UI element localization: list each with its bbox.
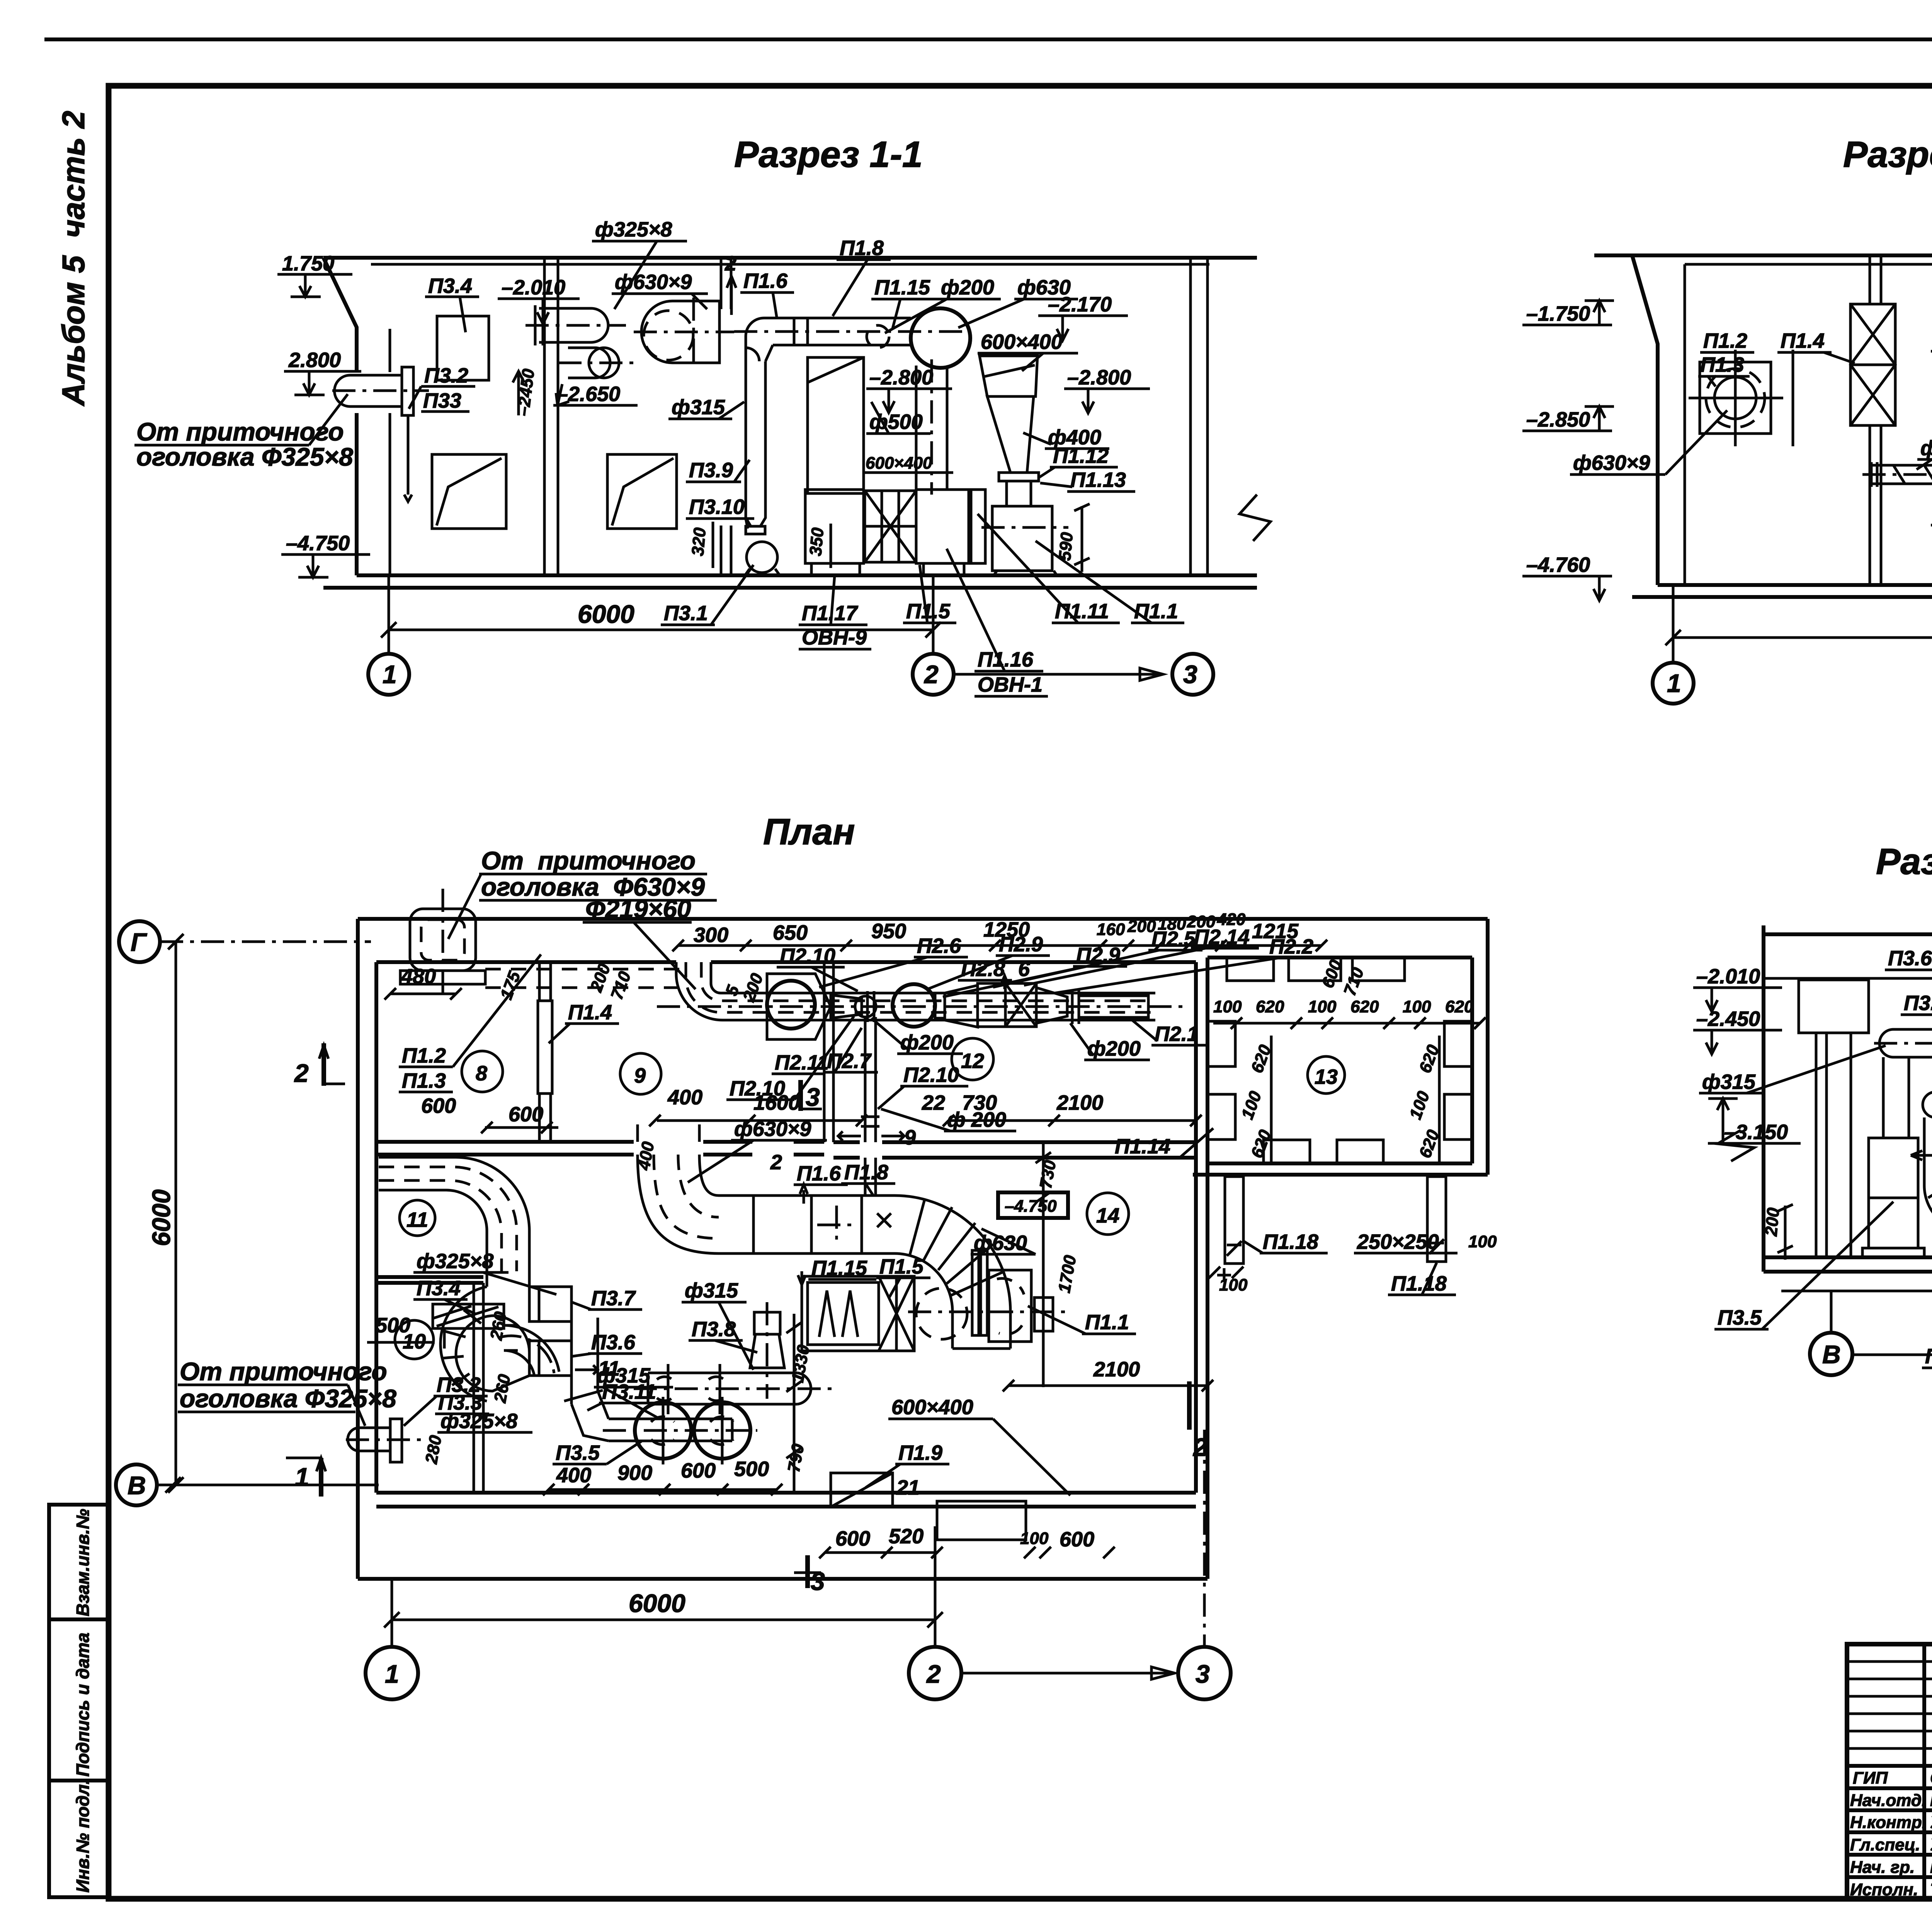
svg-text:–2.850: –2.850: [1526, 408, 1590, 431]
П3.11 elbow: [504, 1325, 559, 1376]
left wall: [356, 919, 360, 1579]
section mark 2 top left: [321, 1043, 326, 1086]
svg-text:П1.18: П1.18: [1391, 1272, 1447, 1295]
svg-text:План: План: [763, 811, 855, 852]
fan circle ф630: [911, 308, 970, 368]
bottom wall: [376, 1491, 1196, 1495]
duct ф325x8 upper: [539, 308, 608, 342]
П1.18 stub left: [1225, 1177, 1243, 1264]
svg-text:6: 6: [1018, 957, 1030, 981]
motor П1.1: [989, 1270, 1031, 1342]
svg-text:21: 21: [896, 1476, 920, 1499]
svg-text:П2.7: П2.7: [827, 1049, 872, 1073]
signature part columns: [1922, 1644, 1926, 1899]
svg-text:П2.10: П2.10: [903, 1063, 959, 1087]
legs: [810, 563, 813, 575]
svg-text:Самитов: Самитов: [1930, 1769, 1932, 1787]
vertical duct ф315: [745, 348, 747, 502]
ceiling slab: [323, 256, 1257, 260]
svg-text:От приточного: От приточного: [481, 846, 696, 875]
svg-text:Нач.отд.: Нач.отд.: [1850, 1791, 1926, 1810]
break mark: [1240, 495, 1270, 541]
floor slab: [1764, 1255, 1932, 1259]
svg-text:–2.010: –2.010: [1696, 965, 1760, 988]
svg-text:П1.1: П1.1: [1085, 1311, 1129, 1334]
P3 upper oval duct: [648, 1372, 798, 1374]
partition below grille: [1869, 425, 1871, 585]
ceiling slab: [1764, 932, 1932, 936]
svg-text:–2.170: –2.170: [1048, 293, 1112, 316]
svg-text:–1.750: –1.750: [1526, 302, 1590, 325]
svg-text:Исполн.: Исполн.: [1850, 1880, 1918, 1899]
svg-text:–3.150: –3.150: [1724, 1121, 1788, 1144]
room number circles: [462, 1051, 503, 1092]
svg-text:П1.2: П1.2: [402, 1044, 446, 1067]
svg-text:ф219×6: ф219×6: [1920, 437, 1932, 460]
svg-text:600: 600: [1060, 1528, 1094, 1551]
upper thin rows: [1847, 1660, 1932, 1663]
main oval duct ф315: [1893, 1028, 1932, 1031]
svg-text:П1.9: П1.9: [898, 1441, 942, 1464]
svg-text:П1.15: П1.15: [811, 1257, 867, 1280]
left wall: [323, 258, 357, 372]
svg-text:–2.010: –2.010: [502, 276, 565, 299]
svg-text:2100: 2100: [1056, 1091, 1103, 1114]
svg-text:–4.760: –4.760: [1526, 553, 1590, 577]
boxes П3.5: [1869, 1138, 1918, 1198]
floor slab: [1658, 583, 1932, 587]
svg-text:П1.3: П1.3: [402, 1069, 446, 1092]
grille П1.4: [1850, 304, 1895, 425]
svg-text:ОВН-1: ОВН-1: [978, 673, 1043, 696]
vert dim 6000: [175, 942, 177, 1485]
svg-text:600: 600: [835, 1527, 870, 1550]
axis В: [1810, 1333, 1852, 1375]
svg-text:Козлов: Козлов: [1930, 1791, 1932, 1810]
svg-text:ф315: ф315: [685, 1279, 738, 1302]
plan labels: [168, 846, 1497, 1558]
flange П1.12: [999, 473, 1039, 481]
svg-text:П2.2: П2.2: [1269, 935, 1313, 958]
flanges: [972, 1250, 979, 1335]
svg-text:2: 2: [923, 660, 939, 689]
dim line x2055 for 1330/790: [793, 1314, 796, 1493]
svg-text:П2.5: П2.5: [1151, 927, 1196, 951]
dim row above wall: [678, 944, 1321, 947]
svg-text:2: 2: [770, 1151, 782, 1174]
wall room13 block: [1486, 919, 1490, 1175]
svg-text:ф325×8: ф325×8: [440, 1410, 517, 1433]
svg-text:Инв.№ подл.: Инв.№ подл.: [73, 1779, 93, 1893]
duct ф325x8 lower: [568, 348, 610, 378]
arrows 4: [1911, 1151, 1932, 1160]
section mark 3 top: [798, 1080, 803, 1111]
fan П2.6: [767, 974, 831, 1039]
svg-text:3: 3: [1196, 1660, 1210, 1688]
svg-text:П1.5: П1.5: [879, 1255, 924, 1278]
svg-text:П3.10: П3.10: [689, 495, 745, 519]
svg-text:П1.4: П1.4: [568, 1001, 612, 1024]
svg-text:П1.5: П1.5: [906, 600, 951, 623]
flange ticks on horizontal duct: [793, 318, 796, 345]
svg-text:400: 400: [667, 1086, 702, 1109]
svg-text:В: В: [128, 1471, 146, 1500]
svg-text:900: 900: [617, 1461, 652, 1485]
svg-text:ф630×9: ф630×9: [1573, 451, 1650, 474]
svg-text:–2.800: –2.800: [869, 366, 933, 389]
svg-text:–2.450: –2.450: [1696, 1007, 1760, 1031]
svg-text:950: 950: [871, 920, 906, 943]
svg-text:730: 730: [962, 1091, 997, 1114]
flange piece: [971, 490, 985, 563]
П1 big elbow from wall: [636, 1124, 639, 1142]
svg-text:П3.8: П3.8: [692, 1318, 736, 1341]
svg-text:480: 480: [401, 965, 436, 988]
svg-text:250×250: 250×250: [1357, 1230, 1439, 1253]
svg-text:350: 350: [806, 527, 827, 557]
svg-text:600×400: 600×400: [891, 1396, 973, 1419]
svg-text:П1.8: П1.8: [840, 236, 884, 260]
svg-text:Ф219×60: Ф219×60: [585, 895, 691, 923]
svg-text:3: 3: [806, 1083, 820, 1111]
duct from П3.4 to elbow: [504, 1324, 518, 1327]
svg-text:6000: 6000: [629, 1589, 685, 1617]
svg-text:ф200: ф200: [900, 1031, 954, 1054]
svg-text:600×400: 600×400: [981, 330, 1063, 354]
svg-text:12: 12: [961, 1049, 984, 1073]
svg-text:П3.6: П3.6: [1888, 947, 1932, 970]
wall rooms 12/14: [833, 1140, 860, 1144]
wall between 12 block and 13: [1194, 962, 1198, 1493]
svg-text:ф200: ф200: [1087, 1037, 1141, 1060]
axis circle 3: [1178, 1647, 1231, 1699]
svg-text:8: 8: [476, 1062, 487, 1085]
cone П2.2 and stub П2.1: [1036, 988, 1067, 1023]
П1 horizontal duct: [719, 1194, 895, 1197]
svg-text:2100: 2100: [1093, 1358, 1140, 1381]
svg-text:ф630×9: ф630×9: [615, 270, 692, 294]
svg-text:600×400: 600×400: [866, 454, 932, 473]
svg-text:П3.5: П3.5: [1718, 1306, 1762, 1329]
filter П1.5 X-section: [865, 491, 916, 562]
chimney on top wall: [410, 909, 476, 971]
svg-text:П1.16: П1.16: [978, 648, 1034, 671]
svg-text:П3.6: П3.6: [591, 1331, 636, 1354]
svg-text:100: 100: [1213, 997, 1242, 1016]
door square 2: [607, 454, 677, 529]
svg-text:П2.9: П2.9: [999, 933, 1043, 956]
section mark 3 bottom: [805, 1555, 810, 1588]
П1 segmented elbow right: [895, 1196, 1010, 1349]
svg-text:Взам.инв.№: Взам.инв.№: [73, 1509, 93, 1616]
wall below rooms 8/9: [376, 1140, 634, 1144]
dimension 6000: [1672, 585, 1675, 663]
svg-text:–2.800: –2.800: [1067, 366, 1131, 389]
svg-text:500: 500: [376, 1314, 410, 1337]
svg-text:ф200: ф200: [941, 276, 994, 299]
svg-text:П1.3: П1.3: [1700, 353, 1744, 376]
big duct ф630x9: [641, 301, 719, 363]
svg-text:3: 3: [811, 1567, 825, 1595]
top wall outer: [358, 917, 1488, 921]
P3 lower duct with heaters: [609, 1418, 732, 1420]
wall rooms 8/9: [538, 962, 541, 1001]
ф200 duct down: [864, 1017, 867, 1142]
stub оголовок Ф325x8 bottom left: [348, 1428, 390, 1451]
feet: [989, 571, 1063, 575]
cone to П2.5: [945, 985, 978, 1027]
intake П1.2 П1.3: [1700, 362, 1771, 434]
signature rows: [1847, 1764, 1932, 1768]
svg-text:П1.12: П1.12: [1053, 444, 1109, 468]
svg-text:Васильева: Васильева: [1930, 1858, 1932, 1877]
svg-text:–4.750: –4.750: [1005, 1197, 1057, 1216]
svg-text:2: 2: [926, 1660, 941, 1688]
svg-text:П3.11: П3.11: [1904, 992, 1932, 1015]
svg-text:В: В: [1822, 1340, 1841, 1369]
svg-text:П3.4: П3.4: [417, 1277, 461, 1300]
svg-text:500: 500: [734, 1458, 769, 1481]
svg-text:П1.15: П1.15: [874, 276, 930, 299]
svg-text:2.800: 2.800: [288, 349, 341, 372]
dim 6000 bottom: [391, 1579, 393, 1646]
svg-text:1600: 1600: [753, 1091, 800, 1114]
svg-text:П3.5: П3.5: [556, 1441, 600, 1464]
fan П1.1 top diffuser: [980, 356, 1037, 396]
svg-text:620: 620: [1445, 997, 1474, 1016]
svg-text:1: 1: [295, 1463, 309, 1491]
box -4.750: [998, 1192, 1068, 1218]
axis circle 1: [366, 1647, 418, 1699]
svg-text:2: 2: [294, 1059, 309, 1087]
П2 duct elbow from top wall: [676, 962, 1155, 1020]
axis circle 2: [913, 654, 954, 695]
top wall inner: [376, 960, 676, 964]
top trim line: [44, 37, 1932, 41]
svg-text:1.750: 1.750: [282, 252, 334, 275]
svg-text:П3.9: П3.9: [689, 459, 733, 482]
svg-text:П3.8: П3.8: [1925, 1345, 1932, 1368]
boxes П2.5 П2.14: [978, 983, 1005, 1027]
svg-text:22: 22: [922, 1091, 945, 1114]
svg-text:11: 11: [406, 1208, 428, 1231]
axis circle 3: [1172, 654, 1213, 695]
svg-text:П1.18: П1.18: [1263, 1230, 1318, 1253]
svg-text:Н.контр.: Н.контр.: [1850, 1813, 1927, 1832]
vert dim 730/1700: [1042, 1144, 1045, 1387]
svg-text:Альбом 5 часть 2: Альбом 5 часть 2: [56, 111, 91, 406]
svg-text:Подпись и дата: Подпись и дата: [73, 1633, 93, 1777]
wall rooms 9/12: [823, 962, 826, 1142]
section mark 2 bottom right: [1187, 1381, 1192, 1430]
svg-text:П3.1: П3.1: [664, 602, 708, 625]
circle ф200 dashed: [867, 325, 889, 348]
svg-text:оголовка Ф325×8: оголовка Ф325×8: [180, 1384, 396, 1413]
pipe ф219x6 lower run: [1871, 464, 1932, 467]
П3.8 cone and box: [754, 1312, 780, 1334]
svg-text:ф315: ф315: [672, 396, 725, 419]
svg-text:520: 520: [889, 1525, 923, 1548]
svg-text:ф325×8: ф325×8: [595, 218, 672, 241]
svg-text:П3.7: П3.7: [591, 1287, 636, 1310]
svg-text:П1.6: П1.6: [743, 269, 788, 293]
svg-text:Гл.спец.: Гл.спец.: [1850, 1835, 1920, 1854]
svg-text:П2.6: П2.6: [917, 934, 961, 957]
svg-text:620: 620: [1256, 997, 1284, 1016]
partition wall 2: [720, 259, 723, 309]
right wall: [1189, 258, 1192, 575]
svg-text:Усенков: Усенков: [1930, 1813, 1932, 1832]
ф200 circle on run: [855, 996, 876, 1017]
U bend П3 with boxes: [440, 1287, 529, 1401]
svg-text:П3.2: П3.2: [424, 364, 468, 387]
svg-text:1: 1: [383, 660, 397, 689]
svg-text:2: 2: [1192, 1433, 1207, 1461]
svg-text:П1.4: П1.4: [1781, 329, 1825, 352]
9 arrows: [838, 1131, 904, 1141]
fan П1.1 dashed wheel: [916, 1288, 967, 1339]
fan П3.1 small: [746, 502, 765, 526]
axis circle 2: [909, 1647, 961, 1699]
dim 6000 vert ticks: [168, 934, 184, 1493]
unit П1.16 ОВН-1: [916, 490, 969, 563]
room 13 slots right: [1444, 1021, 1472, 1066]
svg-text:П1.1: П1.1: [1134, 600, 1178, 623]
svg-text:П2.14: П2.14: [1194, 925, 1250, 949]
svg-text:2: 2: [724, 252, 736, 275]
svg-text:оголовка Ф325×8: оголовка Ф325×8: [136, 442, 353, 471]
upper S-duct П3 near room 11: [379, 1157, 529, 1271]
svg-text:Усенков: Усенков: [1930, 1835, 1932, 1854]
svg-text:ф630×9: ф630×9: [734, 1117, 811, 1141]
room 13 slots top: [1227, 957, 1274, 981]
svg-text:100: 100: [1403, 997, 1431, 1016]
svg-text:1: 1: [385, 1660, 399, 1688]
door square 1: [432, 454, 506, 529]
svg-text:От приточного: От приточного: [180, 1357, 387, 1386]
svg-text:Разрез 2-2: Разрез 2-2: [1843, 134, 1932, 175]
svg-text:П2.1: П2.1: [1155, 1022, 1199, 1046]
svg-text:600: 600: [509, 1103, 543, 1126]
fan П2.9: [893, 984, 935, 1027]
svg-text:620: 620: [1350, 997, 1379, 1016]
elbow to horizontal duct П1.6/П1.8: [746, 318, 911, 348]
svg-text:9: 9: [634, 1064, 646, 1087]
П3.4 heater in plan: [433, 1304, 504, 1328]
section mark 1 bottom left: [319, 1458, 323, 1497]
svg-text:П1.8: П1.8: [844, 1161, 888, 1184]
axis В: [116, 1464, 157, 1505]
wall rooms 11/10: [376, 1275, 483, 1279]
svg-text:100: 100: [1308, 997, 1337, 1016]
svg-text:Тарасова: Тарасова: [1930, 1880, 1932, 1899]
svg-text:–4.750: –4.750: [286, 532, 350, 555]
svg-text:П2.8: П2.8: [961, 957, 1005, 981]
dashed duct Ф219x60 along top wall: [485, 968, 684, 971]
room 13 slots bottom: [1264, 1140, 1310, 1163]
dimension 6000: [388, 575, 390, 655]
svg-text:100: 100: [1468, 1232, 1497, 1251]
svg-text:300: 300: [694, 923, 728, 947]
svg-text:ф315: ф315: [1702, 1070, 1756, 1094]
svg-text:ф630: ф630: [974, 1231, 1027, 1255]
partition wall 1: [543, 259, 546, 575]
left wall: [1594, 255, 1658, 585]
svg-text:400: 400: [556, 1464, 591, 1487]
svg-text:600: 600: [421, 1094, 456, 1117]
break marks: [1718, 1130, 1754, 1161]
vertical pipe from oval to П3.5: [1882, 1057, 1885, 1138]
svg-text:14: 14: [1096, 1204, 1119, 1227]
svg-text:П3.4: П3.4: [428, 274, 472, 298]
П2.8 cone: [831, 995, 862, 1018]
П1.5 filter box: [802, 1276, 914, 1351]
svg-text:ф315: ф315: [597, 1364, 651, 1387]
svg-text:Разрез 1-1: Разрез 1-1: [734, 134, 923, 175]
svg-text:ГИП: ГИП: [1853, 1769, 1888, 1787]
svg-text:13: 13: [1315, 1065, 1338, 1088]
svg-text:650: 650: [773, 921, 808, 944]
svg-text:6000: 6000: [147, 1189, 175, 1246]
floor slab: [357, 573, 1257, 577]
svg-text:ф325×8: ф325×8: [417, 1250, 493, 1273]
svg-text:П33: П33: [423, 389, 461, 412]
axis circle 1: [1653, 663, 1694, 704]
svg-text:100: 100: [1020, 1529, 1049, 1548]
ceiling slab: [1594, 253, 1932, 257]
room 13 slots left: [1207, 1021, 1235, 1066]
elbow П3.8: [1924, 1185, 1932, 1232]
svg-text:600: 600: [681, 1459, 716, 1482]
svg-text:3: 3: [1183, 660, 1197, 689]
label -2450: [517, 371, 520, 415]
vertical duct 600x400 with П1.15 transition: [808, 357, 864, 493]
wall opening below П1.9: [937, 1501, 1026, 1540]
svg-text:1: 1: [1667, 669, 1681, 697]
axis Г: [119, 921, 160, 962]
svg-text:П1.14: П1.14: [1115, 1135, 1170, 1158]
inlet stub П3.2 through wall: [335, 375, 402, 406]
svg-text:160: 160: [1097, 920, 1125, 939]
svg-text:П1.11: П1.11: [1055, 600, 1109, 623]
margin column box: [49, 1505, 109, 1897]
box П3.4: [437, 316, 489, 380]
svg-text:9: 9: [904, 1126, 916, 1149]
arrow В to Г: [1852, 1354, 1932, 1356]
fan box П1.1: [992, 506, 1052, 571]
П1.9 box: [831, 1473, 893, 1507]
main stamp outline: [1847, 1644, 1932, 1899]
pillar: [1799, 980, 1869, 1033]
P3 vertical duct and 45 bend: [570, 1318, 573, 1404]
svg-text:П1.2: П1.2: [1703, 329, 1747, 352]
svg-text:Г: Г: [131, 928, 147, 956]
duct ф500 behind: [915, 366, 918, 490]
svg-text:П1.13: П1.13: [1070, 468, 1126, 492]
svg-text:Разрез 3-3: Разрез 3-3: [1876, 841, 1932, 882]
svg-text:320: 320: [688, 527, 709, 557]
cone ф400: [987, 396, 1034, 473]
small circle П3.6: [1923, 1092, 1932, 1117]
partition room 10 right: [473, 1283, 475, 1493]
heater unit ОВН-9: [805, 490, 864, 563]
arrow 2 to 3: [954, 673, 1163, 676]
П1.18 stub right: [1427, 1177, 1446, 1262]
axis circle 1: [368, 654, 409, 695]
svg-text:П2.10: П2.10: [780, 944, 835, 968]
svg-text:Нач. гр.: Нач. гр.: [1850, 1858, 1915, 1877]
left wall: [1762, 925, 1765, 1272]
